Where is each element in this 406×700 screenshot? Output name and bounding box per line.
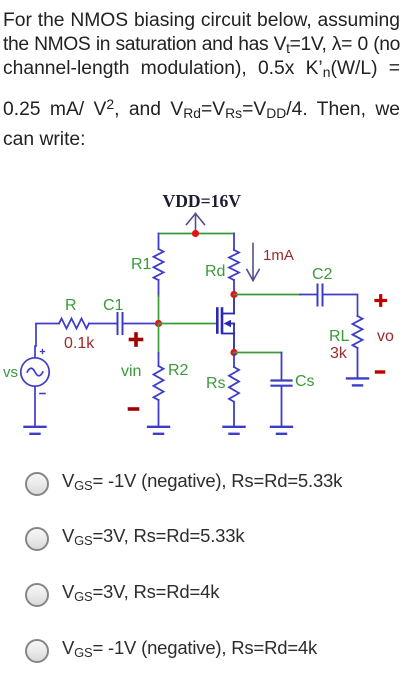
ground below Rs	[224, 427, 245, 434]
paragraph line 5	[3, 127, 400, 153]
svg-text:1mA: 1mA	[263, 247, 294, 264]
svg-text:vo: vo	[377, 328, 394, 345]
vs minus mark	[40, 393, 45, 395]
resistor RL	[353, 316, 363, 378]
wire top rail	[159, 233, 235, 235]
capacitor C2	[318, 285, 323, 306]
vo plus mark	[376, 296, 386, 306]
svg-text:Rd: Rd	[205, 263, 225, 280]
option 1 radio	[0, 472, 406, 498]
paragraph line 2	[3, 32, 400, 58]
vin minus mark	[130, 407, 138, 411]
wire source node to Cs	[234, 352, 282, 354]
capacitor Cs	[281, 353, 283, 380]
node drain junction	[230, 291, 237, 298]
resistor R2	[154, 353, 164, 426]
svg-text:0.1k: 0.1k	[64, 335, 95, 352]
ground below R2	[148, 427, 169, 434]
svg-text:C1: C1	[103, 297, 124, 314]
svg-text:R: R	[65, 297, 77, 314]
1mA current arrow	[247, 244, 259, 281]
wire C2 to RL	[324, 295, 358, 317]
wire vs to R	[36, 323, 59, 325]
paragraph line 4	[3, 97, 400, 123]
ground below RL	[347, 378, 368, 385]
transistor Q1 NMOS	[217, 309, 222, 333]
resistor R1	[154, 234, 164, 297]
svg-text:R2: R2	[168, 362, 189, 379]
node source junction	[230, 349, 237, 356]
svg-text:RL: RL	[329, 328, 350, 345]
ground below Cs	[271, 427, 292, 434]
svg-text:Rs: Rs	[206, 375, 226, 392]
paragraph line 1	[3, 8, 400, 34]
svg-text:R1: R1	[131, 256, 152, 273]
svg-text:vin: vin	[121, 363, 141, 380]
node VDD junction	[192, 230, 199, 237]
wire R to C1	[89, 323, 117, 325]
option 4 radio	[0, 639, 406, 665]
VDD supply arrow	[187, 214, 205, 234]
svg-text:Cs: Cs	[295, 373, 315, 390]
ground below vs	[25, 427, 46, 434]
vo minus mark	[377, 370, 384, 373]
paragraph line 3	[3, 56, 400, 82]
option 3 radio	[0, 583, 406, 609]
node gate junction	[155, 320, 162, 327]
capacitor C1	[118, 313, 123, 334]
resistor R	[59, 319, 89, 329]
wire C1 to gate node	[124, 323, 159, 325]
vin plus mark	[131, 334, 142, 345]
wire gate node to NMOS gate	[159, 323, 217, 325]
resistor Rd	[229, 234, 239, 295]
vs plus mark	[41, 350, 45, 354]
wire R1 to gate node	[158, 296, 160, 324]
svg-text:C2: C2	[312, 266, 333, 283]
svg-text:vs: vs	[3, 364, 18, 381]
resistor Rs	[229, 353, 239, 427]
option 2 radio	[0, 527, 406, 553]
wire gate node to R2	[158, 324, 160, 354]
svg-text:3k: 3k	[330, 345, 348, 362]
svg-text:VDD=16V: VDD=16V	[163, 191, 242, 211]
voltage source vs	[21, 324, 49, 426]
wire drain node to C2	[234, 294, 300, 296]
